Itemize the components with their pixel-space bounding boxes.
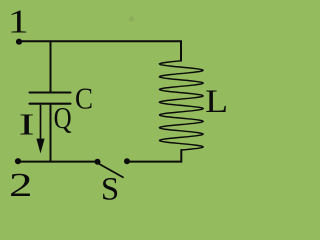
svg-text:C: C bbox=[75, 81, 93, 116]
svg-text:I: I bbox=[19, 107, 35, 142]
switch right contact dot bbox=[124, 158, 130, 164]
svg-text:S: S bbox=[101, 171, 119, 207]
wire: inductor bottom lead to switch right contact bbox=[127, 150, 181, 162]
capacitor C bottom plate bbox=[30, 103, 71, 105]
wire: capacitor bottom branch bbox=[50, 105, 52, 162]
node 2 terminal dot bbox=[15, 158, 21, 164]
switch left contact dot bbox=[95, 159, 101, 165]
svg-text:Q: Q bbox=[54, 100, 72, 135]
svg-text:2: 2 bbox=[9, 167, 33, 204]
svg-text:1: 1 bbox=[8, 4, 29, 41]
wire: node 2 to switch left contact bbox=[18, 161, 97, 163]
switch S lever bbox=[99, 164, 123, 177]
capacitor C top plate bbox=[30, 91, 71, 93]
wire: node 1 to top-right corner, down to inductor top lead bbox=[19, 41, 181, 61]
node 1 terminal dot bbox=[16, 39, 22, 45]
current I arrow shaft bbox=[40, 105, 42, 139]
wire: capacitor top branch bbox=[50, 41, 52, 91]
stray speck bbox=[129, 16, 134, 21]
current I arrowhead bbox=[36, 139, 44, 154]
svg-text:L: L bbox=[205, 84, 228, 120]
inductor L coil bbox=[160, 61, 204, 150]
